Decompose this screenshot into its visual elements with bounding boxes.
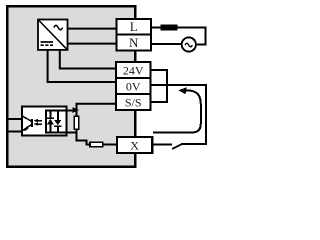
terminal N box [117,35,152,51]
terminal X box [117,137,152,153]
terminal S/S box [116,94,151,110]
wire L to fuse corner [151,28,206,45]
wire N to AC source [151,43,182,45]
power supply diagonal [39,20,67,49]
power supply AC tilde [54,25,63,29]
wire S/S right stub [151,101,168,103]
R1 top lead [76,109,78,116]
power supply DC symbol solid bar [41,41,54,43]
R1 bottom lead and path to X [77,129,118,144]
power supply U1 box [38,20,68,50]
svg-text:L: L [130,19,138,34]
wire phototransistor emitter [8,130,22,132]
optocoupler U2 box [22,107,67,136]
diode D2 down [57,110,59,120]
diode D1 up [49,110,51,119]
wire 24V right stub [151,69,168,71]
svg-text:24V: 24V [123,63,144,77]
AC source tilde [185,43,192,46]
wire 0V to right vertical [151,85,206,144]
fuse F1 [161,25,178,31]
wire phototransistor collector [8,118,22,120]
jumper bar 24V to S/S [166,69,168,103]
wire X right stub [152,143,172,145]
svg-text:N: N [129,35,139,50]
terminal 0V box [116,78,151,94]
svg-text:X: X [130,139,139,153]
wire PS to N [68,43,118,45]
wire S/S internal to opto rail [77,104,117,110]
wire switch to right vertical [182,143,207,145]
switch S1 blade [172,144,182,149]
current arrow at S/S rail junction [73,107,80,113]
opto bottom rail [46,132,77,134]
svg-text:S/S: S/S [125,95,142,109]
current flow curved arrow [153,90,201,132]
resistor R2 horizontal [90,142,103,147]
wire PS bottom left to 0V [48,50,117,82]
light arrows [36,120,42,122]
power supply DC symbol dashed bar [41,44,54,46]
PLC body outline [7,6,135,167]
wire PS to L [68,28,118,30]
svg-text:0V: 0V [126,79,141,93]
terminal L box [117,19,152,35]
phototransistor Q1 [22,116,32,122]
opto top rail [46,109,77,111]
rail left link [45,109,47,133]
resistor R1 vertical [74,116,79,129]
AC source G1 circle [182,37,196,51]
terminal 24V box [116,62,151,78]
wire AC source right link [196,44,206,46]
wire PS bottom right to 24V [60,50,117,69]
